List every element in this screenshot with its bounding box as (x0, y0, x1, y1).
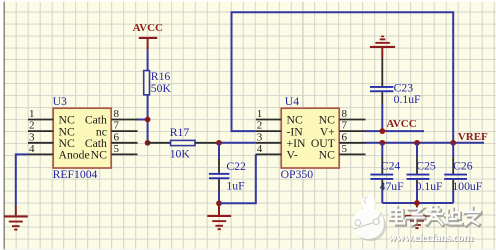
svg-text:REF1004: REF1004 (53, 168, 98, 181)
resistor R16 50K (144, 70, 172, 95)
wire bottom (C24-C26 common) (382, 202, 453, 204)
junction node (C25/VREF row) (414, 140, 420, 146)
svg-text:www.elecfans.com: www.elecfans.com (388, 230, 473, 244)
svg-text:4: 4 (257, 143, 263, 155)
capacitor C26 100uF (444, 143, 483, 203)
junction node (R16/pin8) (145, 117, 151, 123)
svg-text:0.1uF: 0.1uF (416, 180, 443, 193)
svg-text:0.1uF: 0.1uF (394, 93, 421, 106)
wire C23 to pin7 row (381, 104, 383, 131)
power symbol AVCC (top, above R16) (133, 22, 163, 49)
U4 pin 4 (256, 143, 281, 155)
svg-text:C26: C26 (453, 160, 473, 173)
capacitor C24 47uF (370, 143, 404, 203)
svg-text:3: 3 (257, 131, 263, 143)
svg-text:4: 4 (29, 143, 35, 155)
ground (C22 / V-) (207, 203, 231, 230)
svg-text:1: 1 (29, 108, 35, 120)
svg-text:5: 5 (114, 143, 120, 155)
svg-text:NC: NC (319, 149, 335, 162)
svg-text:1: 1 (257, 108, 263, 120)
U3 pin 8 (111, 108, 137, 120)
U4 pin 3 (256, 131, 281, 143)
svg-text:3: 3 (29, 131, 35, 143)
U3 pin 1 (28, 108, 53, 120)
svg-text:47uF: 47uF (380, 180, 405, 193)
ground (inverted, above C23) (370, 36, 395, 58)
svg-text:V-: V- (287, 149, 298, 162)
junction node (C22/ground wire) (216, 200, 222, 206)
svg-text:100uF: 100uF (452, 180, 482, 193)
power symbol VREF (458, 131, 488, 143)
svg-text:6: 6 (114, 131, 120, 143)
svg-text:50K: 50K (151, 82, 172, 95)
junction node (C26/VREF row) (450, 140, 456, 146)
wire R17 to U4 pin3 (219, 142, 256, 144)
svg-text:7: 7 (342, 120, 348, 132)
svg-text:2: 2 (29, 120, 35, 132)
U4 pin 1 (256, 108, 281, 120)
svg-text:6: 6 (342, 131, 348, 143)
U4 pin 8 (339, 108, 365, 120)
wire pin8 stub to vertical (137, 119, 148, 121)
svg-text:AVCC: AVCC (386, 118, 416, 130)
svg-text:C25: C25 (416, 160, 436, 173)
U3 pin 3 (28, 131, 53, 143)
U4 pin 7 (339, 120, 365, 132)
capacitor C23 0.1uF (370, 58, 421, 107)
svg-text:AVCC: AVCC (133, 22, 163, 34)
U3 pin 5 (111, 143, 137, 155)
svg-text:VREF: VREF (458, 131, 488, 143)
resistor R17 10K (148, 126, 219, 160)
capacitor C25 0.1uF (407, 143, 443, 203)
svg-text:R17: R17 (170, 126, 190, 139)
wire pin7 row to AVCC (366, 130, 425, 132)
U3 pin 2 (28, 120, 53, 132)
svg-text:Anode: Anode (59, 149, 90, 162)
svg-text:U3: U3 (53, 95, 67, 108)
ground (U3 anode) (4, 206, 28, 231)
wire VREF row (pin6 to VREF) (366, 142, 485, 144)
svg-text:C24: C24 (381, 160, 401, 173)
svg-text:OP350: OP350 (281, 168, 314, 181)
svg-text:8: 8 (342, 108, 348, 120)
junction node (R17/C22) (216, 140, 222, 146)
IC U4 OP350 (281, 95, 340, 181)
svg-text:NC: NC (91, 149, 107, 162)
svg-text:10K: 10K (170, 148, 191, 161)
U3 pin 6 (111, 131, 137, 143)
U4 pin 2 (256, 120, 281, 132)
wire C22 to U4 V- (219, 154, 256, 203)
watermark text www.elecfans.com (388, 230, 474, 245)
U4 pin 6 (339, 131, 365, 143)
wire feedback loop (OUT to -IN) (232, 12, 454, 143)
wire U3 pin4 to ground (16, 154, 28, 205)
IC U3 REF1004 (53, 95, 112, 181)
svg-text:1uF: 1uF (226, 180, 245, 193)
watermark logo (elecfans) (353, 194, 386, 242)
wire AVCC to R16 (147, 49, 149, 71)
svg-text:U4: U4 (285, 95, 299, 108)
U3 pin 4 (28, 143, 53, 155)
capacitor C22 1uF (209, 143, 246, 204)
junction node (C24/VREF row) (379, 140, 385, 146)
svg-text:7: 7 (114, 120, 120, 132)
U4 pin 5 (339, 143, 365, 155)
ground (C24-C26) (405, 203, 429, 229)
U3 pin 7 (111, 120, 137, 132)
junction node (C23/pin7) (379, 128, 385, 134)
wire R16 to U3 pin6 row (147, 95, 149, 143)
svg-text:8: 8 (114, 108, 120, 120)
svg-text:5: 5 (342, 143, 348, 155)
power symbol AVCC (right) (386, 118, 416, 130)
svg-text:C22: C22 (226, 160, 246, 173)
watermark text 电子发烧友 (390, 207, 480, 226)
svg-text:2: 2 (257, 120, 263, 132)
junction node (bottom/ground) (414, 200, 420, 206)
junction node (vertical/pin6 row) (145, 140, 151, 146)
